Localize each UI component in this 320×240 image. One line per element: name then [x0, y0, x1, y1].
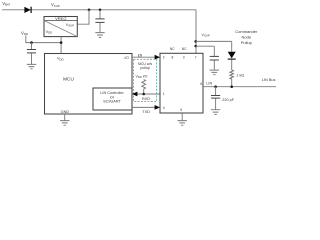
capacitor C3 chip VSUP decoupling	[210, 46, 219, 70]
wire VREG VSUP pin to top rail	[77, 10, 89, 24]
svg-text:VBAT: VBAT	[2, 1, 10, 7]
svg-text:5: 5	[180, 108, 182, 112]
wire RXD net	[137, 93, 161, 95]
LIN pin label	[206, 82, 212, 86]
MCU name label	[63, 76, 74, 81]
svg-text:SCI/UART: SCI/UART	[103, 100, 121, 104]
svg-text:7: 7	[195, 56, 197, 60]
svg-text:Commander: Commander	[235, 29, 258, 34]
diode D1 series reverse-protection	[24, 7, 31, 13]
svg-text:pullup: pullup	[140, 66, 149, 70]
ground U1 pin 5	[178, 113, 187, 125]
option box text MCU w/o pullup	[138, 62, 152, 70]
svg-text:Node: Node	[242, 35, 252, 40]
svg-text:NC: NC	[170, 47, 175, 51]
svg-text:NC: NC	[182, 47, 187, 51]
wire TXD net	[132, 106, 157, 108]
ground C3	[210, 70, 219, 75]
svg-text:VDD: VDD	[46, 30, 53, 35]
RXD net label	[142, 97, 150, 101]
capacitor C1 VSUP decoupling	[95, 10, 104, 33]
R1 value label 1 kOhm	[236, 73, 244, 77]
junction dot VREG VSUP tap	[88, 9, 91, 12]
wire VDD rail	[26, 36, 61, 54]
svg-text:8: 8	[172, 56, 174, 60]
C4 value label 220 pF	[222, 98, 235, 102]
LIN transceiver U1 box	[160, 53, 203, 113]
svg-text:2: 2	[163, 56, 165, 60]
ground MCU	[60, 114, 69, 125]
node VSUP label	[51, 2, 60, 8]
pin 6 number	[200, 82, 202, 86]
NC label pin 3	[182, 47, 187, 51]
resistor R1 1k commander pullup	[230, 70, 234, 87]
pin 2 number	[163, 56, 165, 60]
wire VSUP to cap branch	[196, 45, 215, 47]
svg-text:1 kΩ: 1 kΩ	[236, 73, 244, 77]
capacitor C2 VDD decoupling	[27, 43, 36, 65]
VSUP pin label near chip	[202, 33, 210, 38]
TXD net label	[142, 110, 150, 114]
svg-text:1: 1	[163, 92, 165, 96]
MCU GND pin label	[61, 110, 70, 114]
ground C2	[27, 64, 36, 68]
junction dot VDD to MCU	[60, 41, 63, 44]
capacitor C4 220pF LIN	[211, 87, 220, 110]
MCU I/O pin label	[125, 56, 130, 60]
svg-text:4: 4	[163, 106, 165, 110]
svg-text:MCU: MCU	[63, 76, 74, 81]
svg-text:VDD: VDD	[57, 57, 64, 62]
junction dot LIN cap tap	[214, 85, 217, 88]
pin 5 number	[180, 108, 182, 112]
svg-text:I/O: I/O	[125, 56, 130, 60]
diode D2 commander pullup	[228, 41, 236, 70]
svg-text:VDD: VDD	[21, 30, 28, 36]
wire VSUP to diode branch	[196, 40, 232, 42]
junction dot RXD pullup	[142, 93, 145, 96]
wire EN net	[132, 56, 157, 58]
arrowhead TXD into pin 4	[155, 105, 160, 110]
EN net label	[138, 53, 143, 57]
svg-text:LIN Bus: LIN Bus	[262, 78, 276, 82]
pin 4 number	[163, 106, 165, 110]
wire LIN net	[203, 86, 276, 88]
wire VBAT/VSUP top rail	[2, 10, 196, 54]
ground C1	[95, 33, 104, 38]
MCU VDD pin label	[57, 57, 64, 62]
svg-text:Pullup: Pullup	[241, 40, 253, 45]
svg-text:VSUP: VSUP	[202, 33, 210, 38]
svg-text:3: 3	[183, 56, 185, 60]
ground C4	[211, 110, 220, 115]
arrowhead RXD into MCU	[132, 92, 137, 97]
arrowhead EN into pin 2	[155, 55, 160, 60]
svg-text:GND: GND	[61, 110, 70, 114]
node VBAT label	[2, 1, 10, 7]
junction dot C1 tap	[99, 9, 102, 12]
junction dot VSUP diode branch	[194, 40, 197, 43]
node VDD label left	[21, 30, 28, 36]
pin 8 number	[172, 56, 174, 60]
pin 7 number	[195, 56, 197, 60]
svg-text:EN: EN	[138, 53, 143, 57]
dashed option box MCU pullup	[134, 59, 157, 101]
junction dot C2 tap	[30, 41, 33, 44]
svg-text:Or: Or	[110, 95, 115, 99]
junction dot VSUP cap branch	[194, 45, 197, 48]
pin 3 number	[183, 56, 185, 60]
option box text VDD I/O	[136, 74, 148, 79]
svg-text:VSUP: VSUP	[66, 23, 74, 28]
svg-text:VREG: VREG	[55, 16, 66, 21]
svg-text:6: 6	[200, 82, 202, 86]
junction dot LIN pullup tap	[230, 85, 233, 88]
voltage regulator U2 VREG box	[44, 16, 77, 37]
MCU U3 box	[45, 54, 133, 115]
svg-text:RXD: RXD	[142, 97, 150, 101]
svg-text:220 pF: 220 pF	[222, 98, 235, 102]
LIN controller inner box	[93, 88, 132, 110]
LIN Bus label	[262, 78, 276, 82]
resistor R2 RXD pullup	[142, 80, 146, 95]
NC label pin 8	[170, 47, 175, 51]
svg-text:VSUP: VSUP	[51, 2, 60, 8]
svg-text:TXD: TXD	[142, 110, 150, 114]
commander node pullup label	[235, 29, 258, 45]
svg-text:LIN: LIN	[206, 82, 212, 86]
pin 1 number	[163, 92, 165, 96]
